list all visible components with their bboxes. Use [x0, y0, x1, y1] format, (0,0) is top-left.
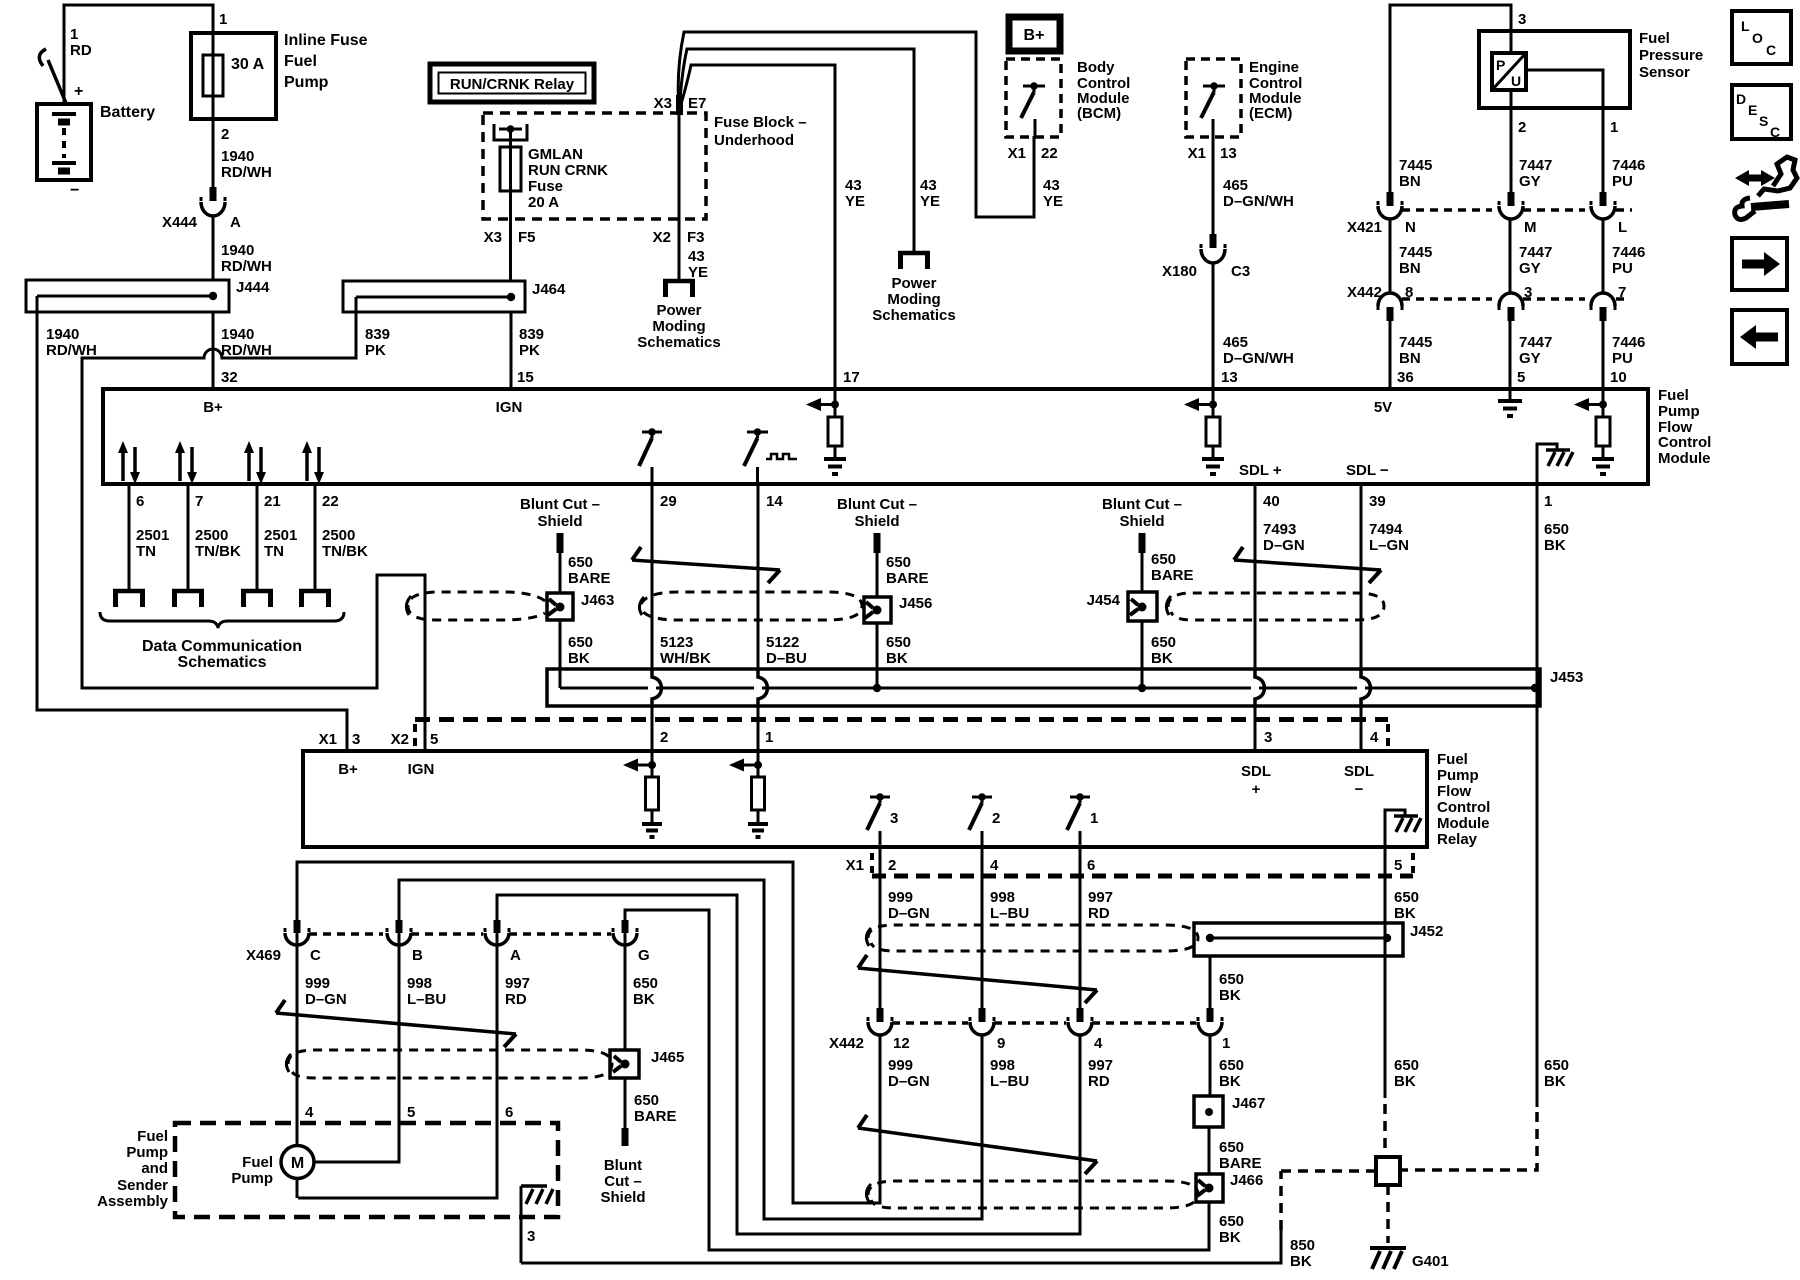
svg-text:39: 39: [1369, 493, 1386, 510]
svg-text:BARE: BARE: [1151, 567, 1194, 584]
BCM label: [1077, 59, 1130, 122]
connector X421 M: [1499, 192, 1523, 219]
svg-text:X3: X3: [654, 95, 672, 112]
GMLAN RUN CRNK fuse 20A: [500, 146, 608, 211]
svg-text:J465: J465: [651, 1049, 684, 1066]
splice J463: [547, 592, 614, 620]
pump chassis ground: [521, 1186, 553, 1263]
svg-text:C3: C3: [1231, 263, 1250, 280]
svg-text:1: 1: [1610, 119, 1618, 136]
wire ECM to X180: [1212, 137, 1215, 234]
switch pin14: [744, 428, 768, 484]
icon right arrow box: [1732, 238, 1787, 290]
svg-text:X421: X421: [1347, 219, 1382, 236]
splice J456: [864, 595, 932, 623]
svg-text:TN/BK: TN/BK: [195, 543, 241, 560]
off-page power moding right: [872, 253, 955, 324]
svg-text:1940: 1940: [221, 242, 254, 259]
wire J456 to J453: [873, 623, 881, 692]
svg-text:7447: 7447: [1519, 334, 1552, 351]
pump pin labels 4 5 6: [305, 1104, 513, 1121]
svg-text:PK: PK: [519, 342, 540, 359]
sensor P/U symbol: [1492, 53, 1526, 90]
svg-text:650: 650: [568, 554, 593, 571]
connector X469 A: [485, 920, 509, 945]
svg-text:M: M: [291, 1155, 304, 1172]
svg-text:999: 999: [888, 1057, 913, 1074]
blunt cut shield 2 label: [837, 496, 917, 530]
svg-text:7446: 7446: [1612, 334, 1645, 351]
svg-text:Fuel: Fuel: [1658, 387, 1689, 404]
svg-text:Schematics: Schematics: [637, 334, 720, 351]
svg-text:650: 650: [1544, 521, 1569, 538]
wire J464 down to module pin 15: [510, 312, 513, 389]
svg-text:X2: X2: [653, 229, 671, 246]
connector X421 L: [1591, 192, 1615, 219]
data comm brace: [100, 612, 344, 628]
wire J452 left to X442-1: [1209, 956, 1212, 1008]
svg-text:7446: 7446: [1612, 244, 1645, 261]
svg-text:Pump: Pump: [284, 74, 329, 91]
wire X442-12 route to X469-C: [297, 862, 880, 1203]
svg-text:Cut –: Cut –: [604, 1173, 642, 1190]
svg-text:1940: 1940: [46, 326, 79, 343]
svg-text:TN: TN: [136, 543, 156, 560]
blunt cut shield 1 label: [520, 496, 600, 530]
relay pin5 dashed to G401 square: [1383, 1104, 1387, 1157]
svg-text:32: 32: [221, 369, 238, 386]
svg-text:Pump: Pump: [231, 1170, 273, 1187]
svg-text:12: 12: [893, 1035, 910, 1052]
svg-text:SDL −: SDL −: [1346, 462, 1389, 479]
svg-text:N: N: [1405, 219, 1416, 236]
wire E7 to BCM loop: [678, 32, 1034, 217]
svg-text:BK: BK: [886, 650, 908, 667]
svg-text:PU: PU: [1612, 173, 1633, 190]
connector X469 G: [613, 920, 637, 945]
wire fuse to J464: [509, 191, 512, 281]
svg-text:M: M: [1524, 219, 1537, 236]
svg-text:C: C: [310, 947, 321, 964]
pin 22 wire: [314, 484, 317, 590]
data arrows pair2: [175, 441, 197, 484]
pin 14 wire to J453: [757, 484, 760, 669]
svg-text:Pump: Pump: [126, 1144, 168, 1161]
svg-text:BK: BK: [1219, 1229, 1241, 1246]
svg-text:B: B: [412, 947, 423, 964]
svg-text:650: 650: [886, 634, 911, 651]
svg-text:650: 650: [568, 634, 593, 651]
dashed drop X2-5: [413, 724, 417, 748]
wire 40 J453 to relay pin3: [1254, 706, 1257, 751]
svg-text:Shield: Shield: [600, 1189, 645, 1206]
wire J444 left branch to relay pin X1-3: [37, 296, 347, 751]
relay switch 2: [969, 793, 1000, 847]
blunt cut stub 3: [1139, 533, 1146, 592]
svg-text:PU: PU: [1612, 260, 1633, 277]
svg-text:J466: J466: [1230, 1172, 1263, 1189]
svg-text:Fuel: Fuel: [242, 1154, 273, 1171]
svg-text:D: D: [1736, 91, 1746, 107]
svg-text:Shield: Shield: [537, 513, 582, 530]
wire J463 to J453: [559, 620, 562, 688]
svg-text:BK: BK: [1394, 1073, 1416, 1090]
pin labels 6 7 21 22: [136, 493, 339, 510]
B+ box: [1009, 17, 1060, 51]
connector X442b 1: [1198, 1008, 1222, 1035]
data arrows pair3: [244, 441, 266, 484]
svg-text:2: 2: [992, 810, 1000, 827]
svg-text:465: 465: [1223, 334, 1248, 351]
twisted pair ellipse E1: [406, 592, 862, 620]
svg-text:RD: RD: [505, 991, 527, 1008]
svg-text:RD: RD: [1088, 1073, 1110, 1090]
splice J444: [26, 279, 270, 312]
twisted pair ellipse E4: [286, 1050, 612, 1078]
svg-text:2: 2: [1518, 119, 1526, 136]
wire 14 J453 to relay pin1: [757, 706, 760, 751]
wire 29 J453 to relay pin2: [651, 706, 654, 751]
dashed bus under J453: [415, 717, 1388, 722]
svg-text:839: 839: [519, 326, 544, 343]
svg-text:L–GN: L–GN: [1369, 537, 1409, 554]
svg-text:Moding: Moding: [887, 291, 940, 308]
wire J464 left branch 839 PK to relay X2-5 with hop: [82, 297, 425, 751]
connector X421 N: [1378, 192, 1402, 219]
svg-text:Schematics: Schematics: [872, 307, 955, 324]
svg-text:5: 5: [1394, 857, 1402, 874]
svg-text:998: 998: [407, 975, 432, 992]
pin 21 wire: [256, 484, 259, 590]
wire sensor pin2: [1510, 90, 1513, 192]
svg-text:6: 6: [136, 493, 144, 510]
svg-text:7447: 7447: [1519, 244, 1552, 261]
svg-text:1: 1: [1544, 493, 1552, 510]
twisted pair ellipse E2: [1166, 593, 1384, 620]
connector X442b 4: [1068, 1008, 1092, 1035]
relay pin2 arrow resistor ground: [623, 751, 662, 837]
inline fuse fuel pump 30A: [191, 33, 276, 119]
svg-text:13: 13: [1221, 369, 1238, 386]
wires X421 to X442: [1390, 218, 1603, 292]
svg-text:X1: X1: [1188, 145, 1206, 162]
svg-text:5V: 5V: [1374, 399, 1392, 416]
svg-text:BARE: BARE: [568, 570, 611, 587]
svg-text:2500: 2500: [195, 527, 228, 544]
ground G401: [1370, 1248, 1449, 1270]
svg-text:Relay: Relay: [1437, 831, 1478, 848]
svg-text:J454: J454: [1087, 592, 1121, 609]
svg-text:997: 997: [1088, 889, 1113, 906]
splice J466: [1196, 1172, 1263, 1202]
relay label: [1437, 751, 1490, 848]
svg-text:14: 14: [766, 493, 783, 510]
wires X442 to module: [1390, 321, 1603, 389]
svg-text:7494: 7494: [1369, 521, 1403, 538]
svg-text:Pressure: Pressure: [1639, 47, 1703, 64]
relay SDL - label: [1344, 763, 1374, 798]
svg-text:3: 3: [527, 1228, 535, 1245]
node 5: [1394, 853, 1413, 874]
svg-text:43: 43: [920, 177, 937, 194]
blunt cut stub J465: [622, 1078, 629, 1146]
svg-text:10: 10: [1610, 369, 1627, 386]
splice J467: [1194, 1095, 1265, 1127]
data comm label: [142, 638, 302, 671]
svg-text:Engine: Engine: [1249, 59, 1299, 76]
svg-text:Fuse: Fuse: [528, 178, 563, 195]
svg-text:650: 650: [1219, 1213, 1244, 1230]
svg-text:Blunt: Blunt: [604, 1157, 642, 1174]
svg-text:G401: G401: [1412, 1253, 1449, 1270]
data arrows pair4: [302, 441, 324, 484]
svg-text:Blunt Cut –: Blunt Cut –: [837, 496, 917, 513]
relay box: [303, 751, 1427, 847]
svg-text:BK: BK: [1219, 987, 1241, 1004]
svg-text:999: 999: [888, 889, 913, 906]
svg-text:C: C: [1770, 124, 1780, 140]
svg-text:BK: BK: [1544, 537, 1566, 554]
svg-text:BN: BN: [1399, 260, 1421, 277]
svg-text:L–BU: L–BU: [990, 905, 1029, 922]
connector X442b 12: [868, 1008, 892, 1035]
svg-text:3: 3: [352, 731, 360, 748]
svg-text:BK: BK: [1219, 1073, 1241, 1090]
svg-text:A: A: [510, 947, 521, 964]
svg-text:7447: 7447: [1519, 157, 1552, 174]
svg-text:9: 9: [997, 1035, 1005, 1052]
svg-text:650: 650: [1151, 551, 1176, 568]
X469 dashed links: [309, 932, 611, 936]
svg-text:5122: 5122: [766, 634, 799, 651]
svg-text:TN: TN: [264, 543, 284, 560]
svg-text:2: 2: [660, 729, 668, 746]
svg-text:650: 650: [1219, 1139, 1244, 1156]
svg-text:GMLAN: GMLAN: [528, 146, 583, 163]
pin 29 wire to J453: [651, 484, 654, 669]
svg-text:21: 21: [264, 493, 281, 510]
svg-text:850: 850: [1290, 1237, 1315, 1254]
svg-text:Sender: Sender: [117, 1177, 168, 1194]
fuel pressure sensor box: [1479, 31, 1630, 108]
module label: [1658, 387, 1711, 467]
pump motor minus stub: [296, 1179, 299, 1198]
svg-text:IGN: IGN: [496, 399, 523, 416]
svg-text:GY: GY: [1519, 173, 1541, 190]
crossover C1: [632, 547, 780, 583]
svg-text:1940: 1940: [221, 326, 254, 343]
svg-text:X469: X469: [246, 947, 281, 964]
svg-text:2501: 2501: [136, 527, 169, 544]
connector X444 pin A: [162, 187, 241, 231]
svg-text:Flow: Flow: [1437, 783, 1471, 800]
wire 850 BK: [521, 1230, 1281, 1263]
svg-text:YE: YE: [688, 264, 708, 281]
wire 39 J453 to relay pin4: [1360, 706, 1363, 751]
sensor label: [1639, 30, 1703, 81]
svg-text:GY: GY: [1519, 260, 1541, 277]
wire X180 to module pin 13: [1212, 263, 1215, 389]
svg-text:E: E: [1748, 102, 1757, 118]
dashed drop right: [1386, 724, 1390, 748]
icon LOC box: [1732, 11, 1791, 64]
svg-text:3: 3: [1264, 729, 1272, 746]
blunt cut shield label J465: [600, 1157, 645, 1206]
svg-text:43: 43: [688, 248, 705, 265]
svg-text:Fuse Block –: Fuse Block –: [714, 114, 807, 131]
fuel pump motor: [231, 1146, 314, 1188]
svg-text:WH/BK: WH/BK: [660, 650, 711, 667]
svg-text:(BCM): (BCM): [1077, 105, 1121, 122]
svg-text:RD: RD: [70, 42, 92, 59]
splice J453 box: [547, 669, 1583, 706]
svg-text:U: U: [1511, 73, 1521, 89]
off-page bracket pin22: [299, 591, 331, 607]
wire sensor pin3 to X421 N: [1390, 5, 1511, 192]
X421 labels: [1347, 219, 1627, 236]
svg-text:−: −: [1355, 781, 1364, 798]
wire X442-9 route to X469-B: [399, 880, 982, 1219]
svg-text:F3: F3: [687, 229, 705, 246]
wire battery to fuse: [64, 5, 213, 104]
pin13 arrow resistor ground: [1184, 389, 1224, 474]
relay switch 1: [1067, 793, 1098, 847]
svg-text:YE: YE: [920, 193, 940, 210]
svg-text:Battery: Battery: [100, 104, 155, 121]
switch pin29: [639, 428, 662, 484]
svg-text:Body: Body: [1077, 59, 1115, 76]
heater squiggle: [766, 454, 797, 459]
svg-text:Power: Power: [891, 275, 936, 292]
svg-text:L: L: [1741, 18, 1750, 34]
svg-text:Fuel: Fuel: [284, 53, 317, 70]
svg-text:D–GN: D–GN: [888, 1073, 930, 1090]
svg-text:7493: 7493: [1263, 521, 1296, 538]
svg-text:4: 4: [990, 857, 999, 874]
svg-text:RD/WH: RD/WH: [46, 342, 97, 359]
J453 hook 14: [754, 669, 768, 706]
svg-text:650: 650: [633, 975, 658, 992]
svg-text:22: 22: [322, 493, 339, 510]
BCM dashed box: [1006, 59, 1061, 137]
svg-text:997: 997: [505, 975, 530, 992]
svg-text:Pump: Pump: [1658, 403, 1700, 420]
svg-text:C: C: [1766, 42, 1776, 58]
svg-text:X180: X180: [1162, 263, 1197, 280]
wire X469-B to pump: [315, 933, 399, 1162]
svg-text:G: G: [638, 947, 650, 964]
splice J465: [610, 1049, 684, 1078]
svg-text:Control: Control: [1437, 799, 1490, 816]
J453 hook 39: [1357, 669, 1371, 706]
svg-text:29: 29: [660, 493, 677, 510]
svg-text:X2: X2: [391, 731, 409, 748]
svg-text:X1: X1: [1008, 145, 1026, 162]
svg-text:P: P: [1496, 57, 1505, 73]
svg-text:Sensor: Sensor: [1639, 64, 1690, 81]
svg-text:RD/WH: RD/WH: [221, 164, 272, 181]
svg-text:650: 650: [1544, 1057, 1569, 1074]
svg-text:RD/WH: RD/WH: [221, 258, 272, 275]
wire X469-G to J465: [624, 933, 627, 1050]
wire E7 branch to power moding right: [679, 49, 914, 253]
wire J467 to J466: [1208, 1127, 1211, 1174]
wire X469-C to pump: [296, 933, 299, 1146]
svg-text:and: and: [141, 1160, 168, 1177]
svg-text:Fuel: Fuel: [1639, 30, 1670, 47]
wire relay pin4 down: [981, 847, 984, 1008]
X1 dashed row: [872, 874, 1413, 879]
svg-text:BK: BK: [1151, 650, 1173, 667]
pin10 arrow resistor ground: [1574, 389, 1614, 474]
J453 hook 29: [648, 669, 662, 706]
svg-text:J453: J453: [1550, 669, 1583, 686]
ECM switch: [1201, 82, 1225, 137]
node X3 F5: [484, 229, 536, 246]
svg-text:BARE: BARE: [1219, 1155, 1262, 1172]
pin5 ground: [1498, 389, 1522, 416]
svg-text:650: 650: [634, 1092, 659, 1109]
svg-text:RD/WH: RD/WH: [221, 342, 272, 359]
fuel pump flow control module box: [103, 389, 1648, 484]
wire X469-A to pump: [298, 933, 497, 1198]
svg-text:(ECM): (ECM): [1249, 105, 1292, 122]
wire fuse to X444: [212, 119, 215, 187]
wire X442-4 route to X469-A: [497, 895, 1080, 1234]
svg-text:Power: Power: [656, 302, 701, 319]
node X2 5: [391, 731, 439, 748]
node X1 22: [1008, 145, 1058, 162]
svg-text:Module: Module: [1658, 450, 1711, 467]
svg-text:4: 4: [305, 1104, 314, 1121]
svg-text:13: 13: [1220, 145, 1237, 162]
svg-text:2: 2: [888, 857, 896, 874]
svg-text:997: 997: [1088, 1057, 1113, 1074]
svg-text:J463: J463: [581, 592, 614, 609]
svg-text:BK: BK: [1394, 905, 1416, 922]
svg-text:PU: PU: [1612, 350, 1633, 367]
wire J444 down to module pin 32: [212, 312, 215, 389]
svg-text:GY: GY: [1519, 350, 1541, 367]
crossover C5: [858, 1115, 1097, 1174]
svg-text:J456: J456: [899, 595, 932, 612]
svg-text:Shield: Shield: [854, 513, 899, 530]
X442b dashed links: [892, 1021, 1196, 1025]
svg-text:SDL +: SDL +: [1239, 462, 1282, 479]
svg-text:B+: B+: [338, 761, 358, 778]
svg-text:4: 4: [1094, 1035, 1103, 1052]
svg-text:650: 650: [1151, 634, 1176, 651]
svg-text:+: +: [74, 83, 83, 100]
data arrows pair1: [118, 441, 140, 484]
svg-text:X442: X442: [829, 1035, 864, 1052]
svg-text:PK: PK: [365, 342, 386, 359]
svg-text:Fuel: Fuel: [1437, 751, 1468, 768]
svg-text:BARE: BARE: [634, 1108, 677, 1125]
svg-text:BN: BN: [1399, 173, 1421, 190]
wire E7 branch to module pin 17: [679, 65, 835, 389]
svg-text:Module: Module: [1437, 815, 1490, 832]
svg-text:F5: F5: [518, 229, 536, 246]
svg-text:J464: J464: [532, 281, 566, 298]
pin17 arrow resistor ground: [806, 389, 846, 474]
svg-text:J467: J467: [1232, 1095, 1265, 1112]
crossover C3: [858, 955, 1097, 1003]
splice J464: [343, 281, 566, 312]
svg-text:L–BU: L–BU: [407, 991, 446, 1008]
GMLAN fuse holder: [494, 124, 527, 147]
svg-text:X442: X442: [1347, 284, 1382, 301]
